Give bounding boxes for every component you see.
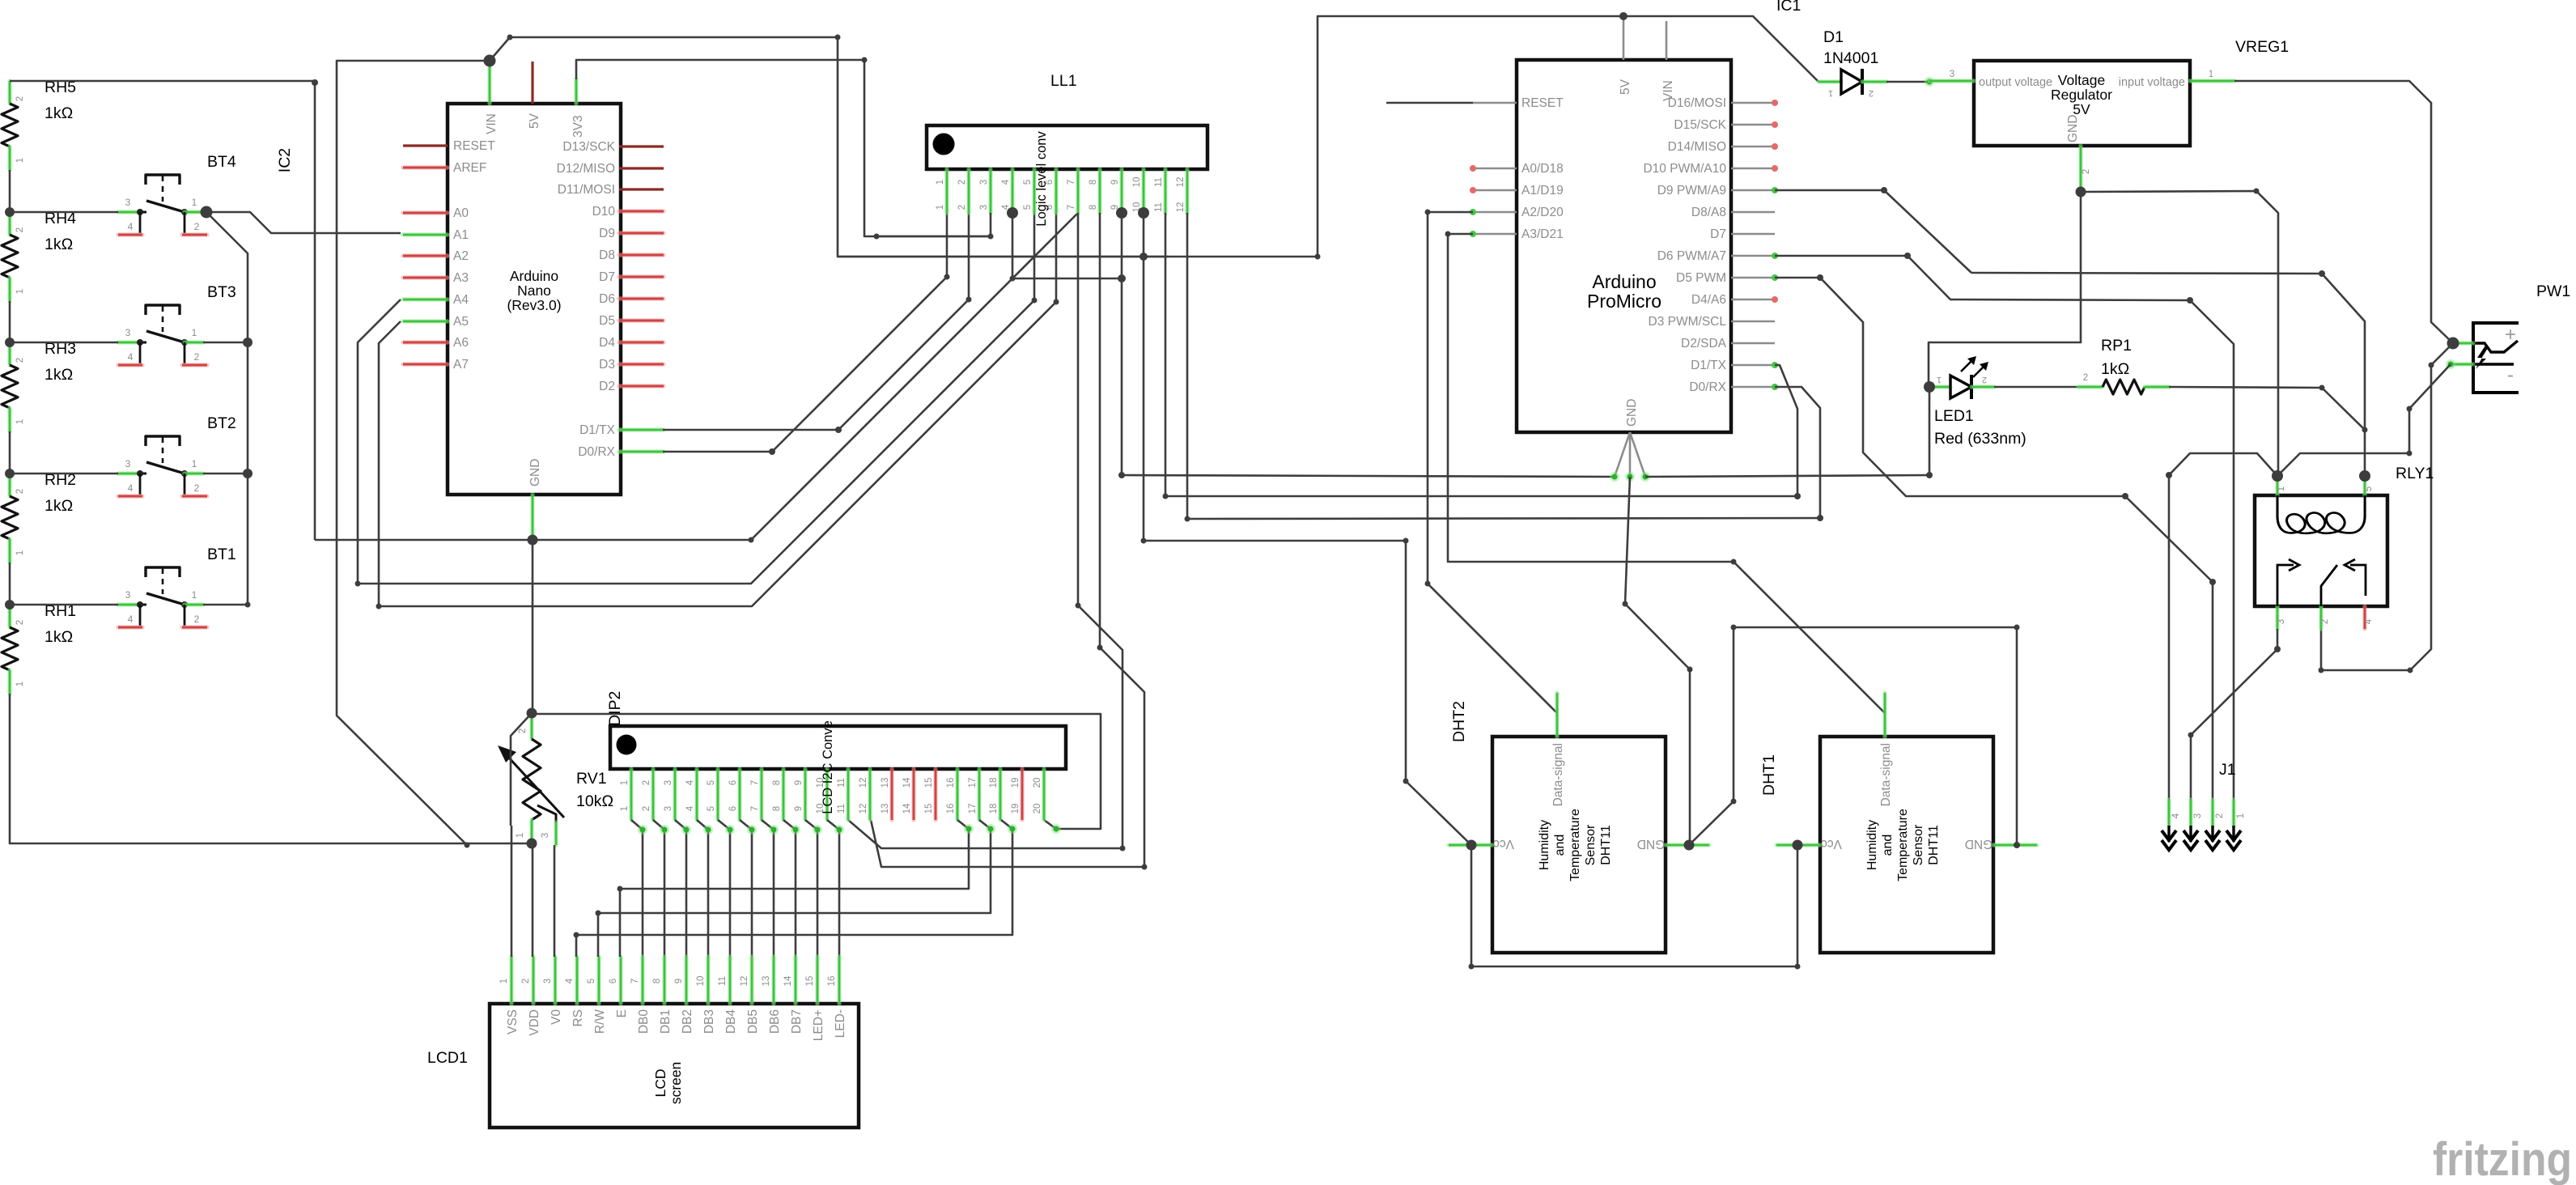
wire LCD RS to DIP2 pin18 (576, 820, 1012, 957)
svg-text:BT2: BT2 (207, 414, 236, 432)
resistor RH1 1kΩ (2, 602, 76, 694)
svg-text:DHT11: DHT11 (1599, 825, 1613, 865)
wire RLY1 pin3 to J1 pin3 (2191, 629, 2277, 800)
relay RLY1 (2255, 476, 2387, 629)
junction resistor chain at BT4 row (5, 207, 15, 217)
svg-text:LED-: LED- (834, 1009, 847, 1038)
svg-text:D2: D2 (599, 380, 615, 393)
junction TX corner (835, 427, 842, 433)
junction PW1 plus (2447, 338, 2459, 350)
pushbutton BT3 (118, 283, 236, 365)
svg-text:LCD1: LCD1 (427, 1049, 468, 1067)
wire PW1 plus to RLY1 pin2 (2321, 343, 2453, 670)
junction D5 mid corner (2122, 493, 2128, 499)
svg-text:DHT11: DHT11 (1927, 825, 1941, 865)
svg-text:3: 3 (664, 780, 673, 785)
IC DIP2 LCD I2C converter (610, 720, 1066, 820)
junction GND mid corner2 (1687, 667, 1693, 673)
svg-text:Sensor: Sensor (1584, 824, 1598, 865)
pushbutton BT4 (118, 153, 236, 235)
svg-text:A0/D18: A0/D18 (1521, 162, 1564, 176)
svg-text:D1: D1 (1823, 28, 1844, 46)
svg-text:Humidity: Humidity (1538, 820, 1551, 870)
svg-text:Arduino: Arduino (510, 268, 558, 284)
junction pin8 corner (1097, 645, 1103, 651)
junction A3 corner (1445, 231, 1451, 237)
junction LL1 pin3 corner (988, 234, 994, 240)
wire ProMicro GND mid to DHT2 GND (1625, 477, 1690, 845)
svg-text:14: 14 (783, 975, 793, 986)
svg-text:DB5: DB5 (746, 1009, 760, 1034)
svg-text:4: 4 (1001, 179, 1011, 185)
pin Nano GND (green) (530, 495, 534, 540)
wire BT2 pin1 to chain (203, 473, 248, 475)
svg-text:2: 2 (2082, 169, 2091, 174)
junction TX pro corner (1794, 493, 1801, 499)
junction A4 corner (355, 581, 361, 587)
wire LED1 to RP1 (1994, 386, 2078, 389)
voltage regulator VREG1 (1929, 61, 2234, 192)
wire DIP2 pin10 to LCD pin16 (827, 820, 839, 957)
svg-text:10kΩ: 10kΩ (576, 792, 613, 810)
svg-text:2: 2 (642, 806, 651, 811)
svg-text:LL1: LL1 (1050, 72, 1077, 90)
wire BT3 pin1 to chain (203, 342, 248, 344)
svg-text:3: 3 (664, 806, 673, 811)
svg-text:DB0: DB0 (637, 1009, 651, 1034)
svg-text:DIP2: DIP2 (606, 691, 624, 726)
svg-text:5: 5 (707, 806, 716, 811)
svg-text:1: 1 (1937, 375, 1942, 384)
svg-text:17: 17 (968, 804, 978, 814)
svg-text:RLY1: RLY1 (2396, 465, 2434, 482)
svg-text:16: 16 (946, 804, 956, 814)
wire Nano D1/TX to LL1 pin2 (663, 213, 969, 430)
junction 5V rail at LL1 pin10 (1139, 253, 1148, 261)
svg-text:5: 5 (1023, 180, 1033, 185)
svg-text:DHT2: DHT2 (1450, 701, 1468, 742)
svg-text:3: 3 (125, 458, 131, 469)
svg-text:D6: D6 (599, 292, 615, 306)
svg-text:11: 11 (837, 778, 847, 788)
wire Nano D0/RX to LL1 pin1 (663, 213, 947, 452)
junction RS corner (574, 932, 579, 938)
diode D1 1N4001 (1818, 28, 1886, 98)
svg-text:3: 3 (979, 205, 989, 210)
svg-text:D7: D7 (1710, 227, 1726, 241)
svg-text:3: 3 (2277, 619, 2286, 624)
svg-text:A1: A1 (453, 228, 469, 242)
svg-text:LED+: LED+ (812, 1009, 825, 1041)
svg-text:fritzing: fritzing (2433, 1133, 2572, 1185)
svg-text:12: 12 (1176, 177, 1186, 188)
junction chain at BT3 (243, 338, 253, 347)
svg-text:1kΩ: 1kΩ (45, 236, 73, 253)
LED LED1 Red (633nm) (1929, 356, 2026, 448)
svg-text:DB7: DB7 (790, 1009, 804, 1034)
svg-text:7: 7 (750, 780, 760, 785)
svg-text:DB3: DB3 (702, 1009, 716, 1034)
junction GND corner (749, 537, 754, 543)
junction vcc chain c1 (1469, 964, 1475, 970)
junction LL1 pin10 (1138, 207, 1149, 219)
junction GND at pin9 (1118, 274, 1126, 282)
wire ProMicro A3 to DHT1 data (1448, 234, 1885, 713)
wire RH3 pin1 to row (9, 431, 11, 474)
svg-text:5: 5 (2364, 486, 2374, 491)
wire Nano A4 to LL1 pin5 (358, 213, 1034, 584)
svg-text:12: 12 (1176, 202, 1186, 213)
sensor DHT2 (DHT11) (1449, 693, 1709, 953)
wire VREG input to PW1 plus (2234, 81, 2453, 343)
sensor DHT1 (DHT11) (1776, 693, 2037, 953)
wire LCD VSS up (511, 826, 513, 957)
junction pin3 stub end (874, 234, 880, 240)
svg-text:2: 2 (2320, 619, 2330, 624)
junction resistor chain at BT1 row (5, 600, 15, 609)
junction j1pin4 corner (2166, 472, 2172, 478)
connector J1 (4 arrows) (2162, 800, 2246, 850)
svg-text:3: 3 (541, 833, 550, 838)
junction dht gnd c1 (2014, 625, 2020, 631)
junction A2 corner (1425, 210, 1431, 215)
svg-text:8: 8 (1089, 205, 1098, 210)
svg-text:-: - (2507, 364, 2514, 386)
svg-text:3: 3 (1950, 70, 1954, 79)
svg-text:DB1: DB1 (659, 1009, 673, 1034)
svg-text:4: 4 (2364, 618, 2374, 624)
pushbutton BT1 (118, 546, 236, 627)
wire LL1 pin4 to pin9 (GND) (1012, 213, 1122, 278)
svg-text:D3: D3 (599, 358, 615, 372)
svg-text:9: 9 (674, 979, 684, 983)
pin PW1 minus (2451, 362, 2473, 366)
svg-text:Regulator: Regulator (2051, 87, 2112, 103)
resistor RH3 1kΩ (2, 340, 76, 431)
junction pin20 wire end (1051, 824, 1061, 834)
svg-text:Vcc: Vcc (1821, 837, 1842, 851)
svg-text:RS: RS (571, 1009, 585, 1027)
junction pw minus mid (2407, 406, 2413, 412)
svg-text:2: 2 (194, 482, 200, 494)
wire ProMicro RESET stub (1386, 102, 1473, 104)
svg-text:GND: GND (2066, 115, 2080, 142)
svg-text:1: 1 (15, 158, 25, 163)
svg-text:2: 2 (642, 780, 651, 785)
svg-text:1: 1 (1828, 88, 1833, 98)
junction J1 pin2 corner (2209, 579, 2216, 585)
pin PW1 plus (2453, 341, 2473, 345)
wire Nano GND to RV1 pin2 (532, 540, 534, 713)
junction Nano VIN (484, 55, 496, 67)
IC Arduino ProMicro (1470, 16, 1778, 482)
wire ProMicro A2 to DHT2 data (1428, 212, 1556, 712)
svg-text:A7: A7 (453, 358, 469, 372)
svg-text:D9: D9 (599, 227, 615, 240)
svg-text:1: 1 (516, 833, 525, 838)
svg-text:+: + (2505, 324, 2516, 346)
svg-text:A6: A6 (453, 336, 469, 350)
svg-text:1: 1 (2277, 486, 2286, 491)
wire RV1 pin2 to LCD VSS (511, 713, 532, 826)
svg-text:Logic level conv: Logic level conv (1034, 131, 1049, 227)
svg-text:1kΩ: 1kΩ (45, 104, 73, 122)
svg-text:DB6: DB6 (768, 1009, 782, 1034)
svg-text:18: 18 (989, 804, 999, 814)
junction A5 corner (376, 604, 382, 609)
svg-text:1kΩ: 1kΩ (2101, 360, 2129, 378)
junction x1414 corner (1142, 864, 1148, 870)
svg-text:GND: GND (1637, 837, 1665, 851)
wire LCD E to DIP2 pin16 (620, 820, 969, 957)
svg-text:D8/A8: D8/A8 (1691, 206, 1726, 219)
svg-text:6: 6 (728, 806, 738, 811)
svg-text:13: 13 (762, 976, 771, 987)
svg-text:12: 12 (740, 976, 749, 987)
svg-text:4: 4 (128, 351, 134, 363)
wire DIP2 pin6 to LCD pin12 (740, 820, 752, 957)
junction D9 corner (1881, 187, 1887, 193)
junction D6 corner (1904, 253, 1911, 259)
junction x1387 corner (1120, 846, 1126, 852)
svg-text:and: and (1881, 835, 1895, 856)
svg-text:D1/TX: D1/TX (579, 423, 616, 437)
svg-text:11: 11 (1154, 177, 1164, 187)
svg-text:RESET: RESET (453, 139, 495, 153)
wire 5V rail to ProMicro/D1 (838, 16, 1818, 257)
wire Nano GND bus (315, 213, 1078, 540)
svg-text:Temperature: Temperature (1896, 809, 1910, 881)
svg-text:3: 3 (2193, 813, 2203, 818)
wire ProMicro D5 to J1 pin2 (1775, 278, 2213, 800)
svg-text:20: 20 (1033, 778, 1042, 788)
wire DHT1 GND to DHT2 GND (1689, 627, 2017, 845)
wire RH1 pin1 to LCD VDD net (10, 694, 532, 843)
svg-text:5: 5 (587, 979, 596, 983)
svg-text:1: 1 (15, 419, 25, 424)
svg-text:3: 3 (125, 327, 131, 338)
svg-text:8: 8 (772, 780, 782, 785)
svg-text:Arduino: Arduino (1592, 271, 1656, 292)
svg-text:7: 7 (630, 979, 640, 983)
IC LL1 logic level converter (927, 125, 1207, 227)
svg-text:13: 13 (881, 804, 890, 814)
junction pin9 low corner (1118, 472, 1125, 478)
svg-text:2: 2 (518, 728, 528, 733)
junction corner x1628 (1315, 254, 1321, 260)
wire RV1 pin2 to DIP2 pin20 (532, 714, 1101, 829)
svg-text:Sensor: Sensor (1912, 824, 1925, 865)
svg-text:18: 18 (989, 778, 999, 788)
svg-text:1kΩ: 1kΩ (45, 497, 73, 515)
svg-text:2: 2 (1982, 375, 1987, 384)
svg-text:IC1: IC1 (1776, 0, 1801, 15)
svg-text:DB4: DB4 (724, 1009, 738, 1034)
svg-text:1: 1 (936, 180, 945, 185)
svg-text:14: 14 (902, 803, 912, 813)
junction dht gnd c2 (1731, 625, 1737, 631)
junction A3 low corner (1731, 559, 1737, 565)
svg-text:D1/TX: D1/TX (1691, 359, 1727, 372)
wire BT4 pin1 to Nano A1 (206, 212, 401, 233)
svg-text:2: 2 (15, 358, 25, 363)
wire LL1 pin12 to ProMicro RX (1187, 213, 1820, 519)
svg-text:9: 9 (794, 780, 804, 785)
junction RLY1 pin5 (2359, 470, 2370, 482)
junction BT4 pin1 (201, 206, 213, 219)
svg-text:(Rev3.0): (Rev3.0) (507, 297, 561, 313)
svg-text:5V: 5V (528, 113, 541, 129)
svg-text:D3 PWM/SCL: D3 PWM/SCL (1649, 315, 1727, 329)
IC Arduino Nano (Rev3.0) (403, 62, 664, 495)
svg-text:6: 6 (609, 979, 618, 983)
wire VREG GND to LED1 anode (1929, 192, 2081, 387)
svg-text:D9 PWM/A9: D9 PWM/A9 (1657, 184, 1726, 197)
svg-text:A2/D20: A2/D20 (1521, 206, 1564, 219)
svg-text:16: 16 (946, 778, 956, 788)
junction pin11 corner (1163, 494, 1169, 499)
junction PW1 minus end (2446, 359, 2455, 369)
junction LL1 pin5 corner (1032, 298, 1038, 304)
svg-text:GND: GND (528, 459, 542, 486)
junction DHT1 GND (2014, 842, 2020, 848)
svg-text:D4/A6: D4/A6 (1691, 293, 1726, 307)
resistor RH4 1kΩ (2, 210, 76, 301)
resistor RH2 1kΩ (2, 471, 76, 563)
svg-text:RV1: RV1 (576, 770, 607, 788)
svg-text:3: 3 (125, 589, 131, 601)
svg-text:11: 11 (718, 976, 728, 986)
svg-text:6: 6 (728, 780, 738, 785)
svg-text:2: 2 (957, 205, 967, 210)
junction rly2 corner (2408, 668, 2413, 673)
wire VREG GND to RLY1 pin1 (2081, 191, 2278, 476)
svg-text:2: 2 (194, 351, 200, 363)
svg-text:BT4: BT4 (207, 153, 236, 171)
svg-text:A4: A4 (453, 293, 469, 307)
junction RX pro corner (1817, 515, 1823, 521)
wire DIP2 pin1 to LCD pin7 (631, 820, 643, 957)
svg-text:8: 8 (1089, 180, 1098, 185)
junction 3V3 corner (862, 57, 868, 63)
svg-text:D13/SCK: D13/SCK (562, 140, 615, 154)
svg-text:7: 7 (1067, 205, 1076, 210)
junction Nano GND (528, 535, 538, 546)
svg-text:IC2: IC2 (276, 148, 294, 172)
wire button chain BT4-BT1 (203, 212, 248, 605)
svg-text:DB2: DB2 (681, 1009, 694, 1034)
wire RH5 pin1 to row (9, 170, 11, 212)
junction corner 5V rail (507, 35, 513, 40)
svg-text:1: 1 (192, 589, 197, 601)
svg-text:VDD: VDD (528, 1009, 541, 1036)
junction RP1 joins relay line (2362, 427, 2368, 433)
svg-text:1kΩ: 1kΩ (45, 366, 73, 384)
svg-text:1: 1 (620, 806, 630, 811)
svg-text:Humidity: Humidity (1865, 820, 1879, 870)
svg-text:DHT1: DHT1 (1760, 754, 1778, 796)
svg-text:RESET: RESET (1521, 96, 1564, 110)
svg-text:J1: J1 (2219, 761, 2236, 779)
junction pin7 corner (1076, 603, 1081, 609)
pin Nano 3V3 (green) (574, 79, 578, 104)
svg-text:BT3: BT3 (207, 283, 236, 301)
svg-text:12: 12 (859, 804, 868, 814)
svg-text:Data-signal: Data-signal (1551, 743, 1565, 806)
svg-text:3: 3 (979, 180, 989, 185)
svg-text:GND: GND (1965, 837, 1992, 851)
svg-text:15: 15 (924, 778, 934, 788)
LCD display LCD1 (490, 957, 859, 1128)
svg-text:7: 7 (1067, 180, 1076, 185)
svg-text:RP1: RP1 (2101, 337, 2132, 355)
svg-text:11: 11 (1154, 202, 1164, 212)
svg-text:2: 2 (1869, 88, 1874, 98)
wire DIP2 pin3 to LCD pin9 (675, 820, 686, 957)
junction RX corner (769, 448, 775, 455)
svg-text:BT1: BT1 (207, 546, 236, 563)
svg-text:screen: screen (668, 1062, 684, 1105)
junction top-left corner (312, 79, 318, 86)
svg-text:GND: GND (1625, 399, 1639, 427)
wire PW1 minus to RLY1 pin1 (2277, 364, 2451, 476)
wire LCD V0 to RV1 pin3 (554, 845, 556, 957)
svg-text:and: and (1553, 835, 1567, 856)
svg-text:2: 2 (957, 180, 967, 185)
junction corner at x1035 (835, 35, 841, 40)
svg-text:11: 11 (837, 804, 847, 813)
junction resistor chain at BT3 row (5, 338, 15, 347)
wire RH row to BT1 pin3 (10, 604, 118, 606)
junction vcc chain c2 (1795, 964, 1801, 970)
svg-text:LCD: LCD (652, 1068, 668, 1097)
svg-text:input voltage: input voltage (2119, 76, 2185, 89)
svg-text:4: 4 (128, 221, 134, 232)
wire DHT Vcc chain (1471, 845, 1797, 966)
junction VREG GND (2076, 187, 2086, 197)
junction GND mid corner (1623, 601, 1628, 607)
svg-text:5V: 5V (1619, 79, 1632, 95)
junction D5 corner (1817, 274, 1823, 281)
svg-text:19: 19 (1011, 804, 1021, 814)
wire LL1 pin7 to DIP2 pin11 (GND) (848, 213, 1122, 848)
wire RLY1 pin1 to J1 pin4 (2169, 453, 2277, 800)
junction chain at BT2 (243, 469, 253, 478)
svg-text:PW1: PW1 (2536, 282, 2570, 300)
junction j1pin3 corner (2188, 733, 2194, 738)
svg-text:1N4001: 1N4001 (1823, 49, 1878, 67)
svg-text:Temperature: Temperature (1568, 809, 1582, 881)
wire LCD R/W to DIP2 pin17 (598, 820, 991, 957)
junction RW corner (596, 911, 601, 916)
junction LL1 pin9 (1116, 207, 1127, 219)
svg-text:D7: D7 (599, 270, 615, 284)
svg-text:4: 4 (565, 978, 575, 983)
wire ProMicro GND right to LED junction (1645, 475, 1929, 477)
svg-text:1: 1 (192, 327, 197, 338)
svg-text:A3: A3 (453, 271, 469, 285)
svg-text:9: 9 (794, 806, 804, 811)
svg-text:V0: V0 (550, 1009, 563, 1025)
svg-text:A5: A5 (453, 315, 469, 329)
wire LCD VDD to RV1 pin1 (532, 843, 534, 957)
svg-text:1: 1 (620, 780, 630, 785)
svg-text:D0/RX: D0/RX (578, 445, 615, 459)
svg-text:15: 15 (924, 804, 934, 814)
junction LL1 pin4 (1007, 207, 1018, 219)
svg-text:2: 2 (194, 614, 200, 625)
svg-text:D10 PWM/A10: D10 PWM/A10 (1643, 162, 1726, 176)
